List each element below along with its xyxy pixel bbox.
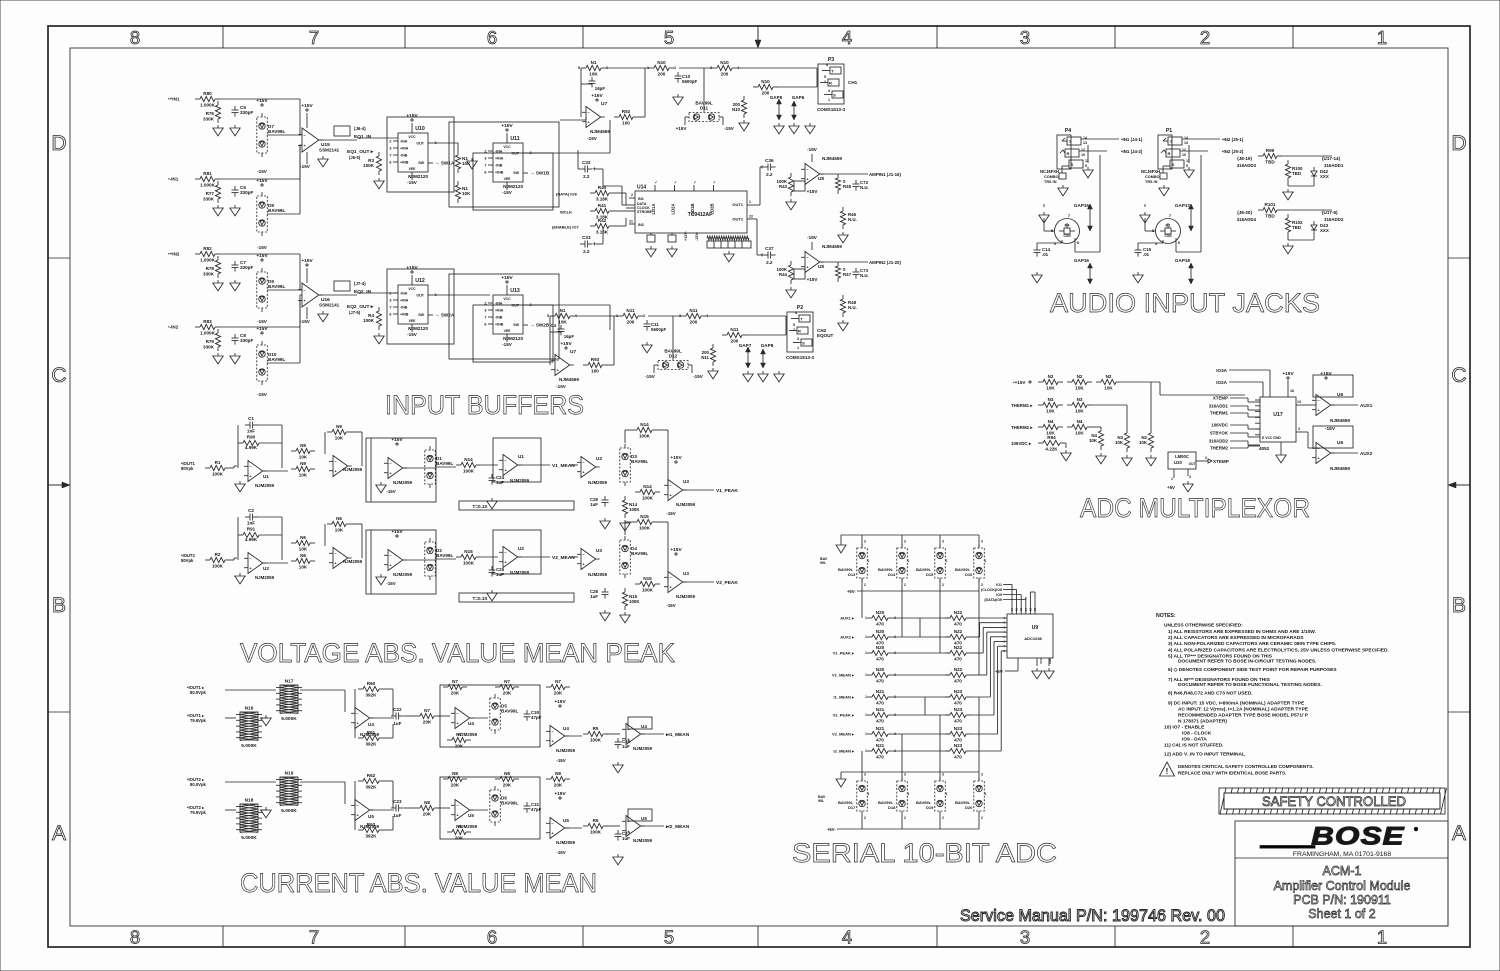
resistor N11 c (722, 327, 747, 344)
svg-text:N6: N6 (336, 516, 342, 521)
svg-text:14: 14 (1010, 607, 1014, 611)
label D13 (838, 567, 856, 577)
svg-text:N9: N9 (336, 424, 342, 429)
svg-text:P2: P2 (797, 305, 803, 311)
node I1_MEAN (665, 732, 690, 738)
svg-text:(J6-4): (J6-4) (354, 126, 366, 131)
resistor N4 10K #2 (1067, 419, 1092, 436)
resistor N15 mean (456, 549, 481, 566)
svg-text:OUT: OUT (511, 304, 519, 308)
svg-text:330K: 330K (203, 197, 215, 202)
label C31 (531, 802, 542, 812)
svg-text:D16: D16 (965, 572, 973, 577)
svg-text:GAP18: GAP18 (1175, 258, 1191, 263)
node GAP15 (1074, 203, 1090, 208)
svg-text:2.2: 2.2 (583, 249, 590, 254)
label volts a (190, 690, 207, 695)
svg-text:3: 3 (904, 773, 906, 777)
svg-text:1: 1 (1377, 927, 1387, 948)
wire +5V top rail upper (841, 534, 979, 536)
svg-text:1: 1 (828, 98, 830, 102)
svg-text:N15: N15 (643, 576, 652, 581)
label 316ADD3 (1237, 163, 1257, 168)
power +15V cur (554, 791, 566, 799)
svg-text:D17: D17 (848, 805, 856, 810)
svg-text:+5V◦: +5V◦ (827, 827, 837, 832)
power -15V peak (666, 511, 675, 516)
svg-text:R79: R79 (206, 339, 215, 344)
wire P1 barrel left (1145, 204, 1155, 231)
node AUX1 adc (840, 616, 855, 621)
op-amp U3b NJM2059 (664, 480, 687, 501)
label U6a (1330, 392, 1350, 423)
power +15V U11 (501, 123, 513, 131)
svg-text:1uF: 1uF (393, 721, 401, 726)
resistor array below U14 (707, 236, 751, 248)
capacitor C40 below U14 (647, 233, 655, 242)
svg-text:IO9: IO9 (996, 593, 1002, 597)
svg-text:+INB: +INB (400, 161, 409, 165)
svg-text:+15V: +15V (676, 126, 688, 131)
resistor N8 t1 (443, 771, 467, 788)
svg-text:330pF: 330pF (240, 338, 253, 343)
svg-text:22: 22 (749, 215, 753, 219)
svg-text:+15V: +15V (406, 113, 418, 119)
svg-text:1) ALL RESISTORS ARE EXPRESSE: 1) ALL RESISTORS ARE EXPRESSED IN OHMS A… (1168, 629, 1317, 635)
svg-text:V2_MEAN: V2_MEAN (552, 555, 575, 561)
power left D11 (676, 126, 688, 131)
svg-text:SW: SW (513, 323, 519, 327)
ground below C7 (230, 280, 240, 291)
svg-text:COMBO: COMBO (1145, 175, 1160, 179)
svg-text:IO2A: IO2A (1216, 380, 1227, 385)
svg-text:6: 6 (389, 313, 391, 317)
wire I2_MEAN to bus (971, 750, 1001, 752)
wire input node (220, 326, 262, 328)
svg-text:AMPIN2 (J1-20): AMPIN2 (J1-20) (869, 260, 902, 265)
diode pack D19 (935, 777, 946, 815)
wire U15 net to C32 (578, 150, 580, 169)
node SW2A (435, 313, 455, 318)
svg-text:6: 6 (484, 171, 486, 175)
svg-text:+INB: +INB (495, 171, 504, 175)
resistor N1 10K b (455, 181, 460, 203)
power -15V below D10 (257, 392, 268, 397)
SAFETY CONTROLLED label (1224, 793, 1440, 809)
svg-text:NJM2059: NJM2059 (255, 575, 275, 580)
capacitor C10 (675, 72, 682, 83)
svg-text:U12: U12 (415, 278, 425, 284)
svg-text:NJM2059: NJM2059 (676, 594, 696, 599)
diode pack D15 (935, 544, 946, 582)
wire vee (811, 242, 813, 250)
svg-text:4.99K: 4.99K (245, 537, 258, 542)
resistor R63 (358, 822, 384, 839)
node 316ADD1 U17 (1209, 404, 1229, 409)
node SW1A (435, 161, 455, 166)
svg-text:10K: 10K (558, 320, 567, 325)
svg-text:-15V: -15V (502, 190, 513, 195)
diode pack D9 (257, 268, 286, 312)
svg-text:-15V: -15V (724, 126, 735, 131)
node XTEMP out (1213, 459, 1229, 464)
diode pack D3 (620, 444, 649, 486)
op-amp U16 SSM2141 (298, 283, 323, 307)
svg-text:R90: R90 (247, 435, 256, 440)
svg-text:100K: 100K (642, 496, 654, 501)
svg-text:1.000K: 1.000K (200, 258, 215, 263)
svg-text:N.U.: N.U. (848, 217, 857, 222)
svg-text:N22: N22 (954, 610, 963, 615)
svg-text:10: 10 (1182, 153, 1186, 157)
svg-text:1: 1 (985, 792, 987, 796)
capacitor C11 (644, 320, 651, 331)
svg-text:C1: C1 (248, 416, 254, 421)
pin numbers D16 (981, 540, 987, 588)
svg-text:U6: U6 (1337, 392, 1343, 398)
resistor N2 10K #2 (1067, 374, 1092, 391)
svg-text:N15: N15 (640, 514, 649, 519)
svg-text:5.000K: 5.000K (281, 716, 297, 722)
svg-text:S: S (802, 341, 805, 346)
node GAP8 (761, 343, 774, 348)
diode pack D2 (425, 538, 454, 580)
wire in to amp (230, 466, 237, 468)
svg-text:C36: C36 (765, 158, 774, 163)
svg-text:3: 3 (484, 309, 486, 313)
svg-text:WCLK: WCLK (560, 210, 572, 215)
label R4 100K (363, 313, 375, 323)
resistor R5 (583, 726, 608, 743)
resistor R60 (358, 681, 384, 698)
wire U17 to U6a (1302, 404, 1316, 406)
label N11 d (701, 350, 709, 360)
ground peak cap (600, 518, 610, 529)
svg-text:GAP17: GAP17 (1175, 203, 1191, 208)
wire vcc (411, 123, 413, 133)
ground N10 d (739, 120, 749, 131)
label 316ADD2 (1324, 217, 1344, 222)
wires current stages (370, 716, 620, 736)
wire input node (220, 253, 262, 255)
svg-text:5: 5 (664, 27, 674, 48)
wire vcc (506, 133, 508, 143)
wire mean to peak (481, 556, 578, 558)
svg-text:N7: N7 (424, 708, 430, 713)
feedback loop input amp (238, 425, 282, 468)
node 316ADD2 U17 (1209, 439, 1229, 444)
svg-text:10K: 10K (299, 565, 308, 570)
svg-text:2: 2 (942, 583, 944, 587)
svg-text:N7: N7 (452, 679, 458, 684)
ground C15 (1133, 272, 1143, 283)
power +15V D9 (256, 253, 268, 261)
svg-text:19: 19 (1033, 607, 1037, 611)
wire vee (306, 152, 308, 164)
svg-text:10K: 10K (1104, 386, 1113, 391)
svg-text:200: 200 (731, 339, 739, 344)
svg-text:20K: 20K (503, 783, 512, 788)
gap arrow GAP7 (746, 347, 751, 368)
svg-text:316ADD1: 316ADD1 (1324, 163, 1344, 168)
pin numbers D17 (864, 773, 870, 821)
BOSE logo (1260, 822, 1418, 850)
label D17 (838, 800, 856, 810)
svg-text:V1_PEAK ▸: V1_PEAK ▸ (833, 651, 855, 656)
label input volts (181, 558, 194, 563)
svg-text:AUX1 ▸: AUX1 ▸ (840, 616, 855, 621)
resistor N7 ser (415, 708, 439, 725)
svg-text:N14: N14 (464, 457, 473, 462)
svg-text:1: 1 (797, 346, 799, 350)
svg-text:N20: N20 (876, 610, 885, 615)
svg-text:17: 17 (1024, 607, 1028, 611)
svg-text:99L: 99L (820, 561, 827, 565)
svg-text:DOCUMENT REFER TO BOSE IN-CIRC: DOCUMENT REFER TO BOSE IN-CIRCUIT TESTIN… (1178, 659, 1317, 665)
wire IO2A (1229, 382, 1263, 397)
power -15V cur (556, 758, 565, 763)
wire D10 mid tap (267, 300, 300, 363)
op-amp U1b NJM2059 (329, 456, 352, 477)
feedback loop mean amp (493, 530, 541, 574)
power -15V below D8 (257, 245, 268, 250)
svg-text:3: 3 (797, 337, 799, 341)
label U7 (559, 349, 579, 382)
ground P2 (774, 371, 784, 382)
resistor N10 a (649, 60, 674, 77)
alignment arrow left (48, 482, 70, 488)
svg-text:N2: N2 (1077, 374, 1083, 379)
resistor N22 V1_MEAN b (945, 667, 971, 684)
resistor R80 (195, 91, 220, 108)
svg-text:ACM-1: ACM-1 (1323, 864, 1362, 878)
ground P4 shell (1083, 167, 1093, 178)
resistor N7 t3 (546, 679, 570, 696)
node +15V (1013, 380, 1026, 385)
svg-text:+INA: +INA (400, 147, 409, 151)
wire V2_MEAN to bus (971, 733, 998, 735)
gap arrow GAP6 (792, 101, 797, 120)
label R78 330K (203, 266, 215, 277)
svg-text:N21: N21 (876, 689, 885, 694)
svg-text:+INB: +INB (400, 313, 409, 317)
label R3 100K (363, 158, 375, 168)
wire IO3A (1229, 370, 1270, 397)
op-amp U1a NJM2059 (244, 461, 267, 482)
power -15V U7 (587, 136, 598, 141)
label D15 (916, 567, 934, 577)
diode pack D5 (490, 694, 519, 734)
node WCLK (560, 210, 572, 215)
resistor R81 (195, 171, 220, 188)
svg-text:TBD: TBD (1292, 225, 1301, 230)
svg-text:-15V◦: -15V◦ (695, 231, 699, 241)
label C24 (496, 475, 505, 485)
svg-text:4) ALL POLARIZED CAPACITORS A: 4) ALL POLARIZED CAPACITORS ARE ELECTROL… (1168, 648, 1390, 654)
ground input amp (235, 573, 245, 584)
svg-text:U2: U2 (518, 546, 524, 551)
svg-text:3: 3 (1020, 27, 1030, 48)
svg-text:-15V: -15V (300, 164, 311, 169)
svg-text:E VCC GND: E VCC GND (1262, 436, 1281, 440)
svg-text:N 178371 (ADAPTER): N 178371 (ADAPTER) (1178, 719, 1227, 725)
svg-text:5600pF: 5600pF (651, 327, 666, 332)
svg-text:TRS IN: TRS IN (1044, 180, 1057, 184)
svg-text:N7: N7 (555, 679, 561, 684)
resistor N3 10K vertical (1124, 429, 1129, 452)
svg-text:NJM2059: NJM2059 (676, 502, 696, 507)
svg-text:B: B (1452, 594, 1466, 617)
svg-text:100K: 100K (212, 472, 224, 477)
resistor network N19 (276, 771, 302, 815)
svg-text:10K: 10K (335, 436, 344, 441)
svg-text:N23: N23 (954, 689, 963, 694)
svg-text:2: 2 (793, 328, 795, 332)
svg-text:C32: C32 (582, 160, 591, 165)
wire -in2 to U16 (300, 295, 302, 327)
svg-text:U13: U13 (510, 288, 520, 294)
svg-text:NJM2059: NJM2059 (588, 572, 608, 577)
svg-text:SAFETY CONTROLLED: SAFETY CONTROLLED (1262, 794, 1406, 809)
resistor N22 AUX1 b (945, 610, 971, 627)
svg-text:NJM4559: NJM4559 (590, 129, 610, 134)
resistor R44 (788, 261, 793, 284)
svg-text:316ADD2: 316ADD2 (1324, 217, 1344, 222)
label C29 (590, 497, 599, 507)
svg-text:100K: 100K (590, 738, 602, 743)
power -15V U6 (1325, 426, 1336, 432)
svg-text:CURRENT ABS. VALUE MEAN: CURRENT ABS. VALUE MEAN (240, 868, 597, 898)
svg-text:N.U.: N.U. (860, 185, 869, 190)
ground below U14 b (667, 246, 677, 257)
ground R94 (1061, 450, 1071, 461)
node I2_MEAN (665, 824, 690, 830)
resistor R62 (358, 773, 384, 790)
svg-text:3: 3 (864, 773, 866, 777)
svg-text:U1: U1 (263, 474, 269, 479)
power +5V U20 (1167, 485, 1175, 490)
node I2_MEAN adc (834, 749, 855, 754)
label C30 (531, 710, 542, 720)
svg-text:→ SW1A: → SW1A (435, 161, 455, 166)
resistor N9 b (291, 461, 315, 478)
feedback loop final (628, 809, 652, 821)
svg-text:R60: R60 (367, 681, 376, 686)
wire vee (411, 324, 413, 332)
svg-text:1uF: 1uF (393, 813, 401, 818)
svg-text:NOTES:: NOTES: (1156, 613, 1176, 619)
svg-text:OUT: OUT (1189, 462, 1196, 466)
svg-text:+15V: +15V (670, 547, 682, 553)
svg-text:2: 2 (1205, 456, 1207, 460)
svg-text:2) ALL CAPACATORS ARE EXPRESS: 2) ALL CAPACATORS ARE EXPRESSED IN MICRO… (1168, 635, 1304, 641)
power +15V peak (670, 547, 682, 555)
label U3a (588, 456, 608, 485)
node (J6-5) (349, 155, 361, 160)
label N10 d (732, 102, 741, 112)
op-amp U3a NJM2059 (577, 457, 600, 478)
label bottom left BAV99 (818, 795, 826, 803)
node STBYOK U17 (1210, 431, 1229, 436)
wire top pack stubs (862, 535, 979, 548)
resistor N8 t3 (546, 771, 570, 788)
svg-text:100K: 100K (463, 469, 475, 474)
node IN1 (J4-1) (1121, 137, 1143, 142)
svg-text:SW: SW (418, 313, 424, 317)
svg-text:470: 470 (876, 719, 884, 724)
capacitor C37 (763, 246, 776, 265)
svg-text:SSM2141: SSM2141 (319, 148, 340, 153)
svg-text:SW: SW (418, 161, 424, 165)
svg-text:V2_MEAN ▸: V2_MEAN ▸ (832, 732, 855, 737)
resistor N8 b1 (447, 824, 471, 841)
node AUX1 (1360, 403, 1373, 408)
svg-text:100K: 100K (642, 588, 654, 593)
resistor N11 b (681, 308, 706, 325)
op-amp U15 SSM2141 (298, 128, 323, 152)
label R43 (777, 179, 788, 189)
resistor N1 10K a (455, 151, 460, 173)
BOSE address (1293, 851, 1391, 858)
warning triangle note (1160, 762, 1314, 776)
svg-text:+15V: +15V (501, 275, 513, 281)
resistor N14 mean (456, 457, 481, 474)
wire input node (220, 178, 262, 180)
op-amp U4d NJM2059 (622, 724, 645, 745)
wire U20 out (1204, 459, 1212, 463)
IC U12 NJM2120 (389, 278, 436, 331)
resistor N7 t2 (495, 679, 519, 696)
label R48 (848, 300, 857, 310)
wire tbd row (1282, 155, 1332, 157)
node GAP5 (770, 95, 783, 100)
connector P4 NCJ6FXH (1057, 128, 1089, 169)
wire P1 tip to net (1182, 137, 1220, 139)
resistor N20 AUX1 a (867, 610, 893, 627)
svg-text:D: D (51, 132, 66, 155)
ground arrow top left (836, 535, 846, 553)
label 316ADD4 (1237, 217, 1257, 222)
svg-text:5.000K: 5.000K (241, 835, 257, 841)
label 16pF (595, 86, 606, 91)
resistor R43 (788, 173, 793, 196)
ground GAP7 (743, 371, 753, 382)
op-amp U1d NJM2059 (499, 455, 522, 476)
resistor R94 (1038, 435, 1065, 452)
svg-text:1.000K: 1.000K (200, 103, 215, 108)
resistor N1 (550, 308, 575, 325)
svg-text:U20: U20 (1174, 460, 1182, 465)
svg-text:N3: N3 (1048, 397, 1054, 402)
ground R44 (786, 287, 796, 298)
resistor N21 V2_PEAK a (867, 707, 893, 724)
svg-text:U14: U14 (637, 185, 646, 191)
wire V2_MEAN mid (893, 733, 950, 735)
resistor R93 (583, 357, 607, 374)
resistor N1 (581, 60, 606, 77)
wire I2_MEAN mid (893, 750, 950, 752)
diode pack D12 (654, 349, 692, 370)
svg-text:U11: U11 (510, 136, 519, 142)
svg-text:R: R (1067, 151, 1070, 156)
resistor N11 a (618, 308, 643, 325)
node V1_PEAK adc (833, 651, 855, 656)
label NCJ6FXH P4 (1040, 169, 1059, 184)
svg-text:U3: U3 (596, 548, 602, 553)
svg-text:7: 7 (389, 306, 391, 310)
svg-text:+15V◦: +15V◦ (684, 230, 688, 241)
wire N2 chain right (1121, 382, 1245, 395)
